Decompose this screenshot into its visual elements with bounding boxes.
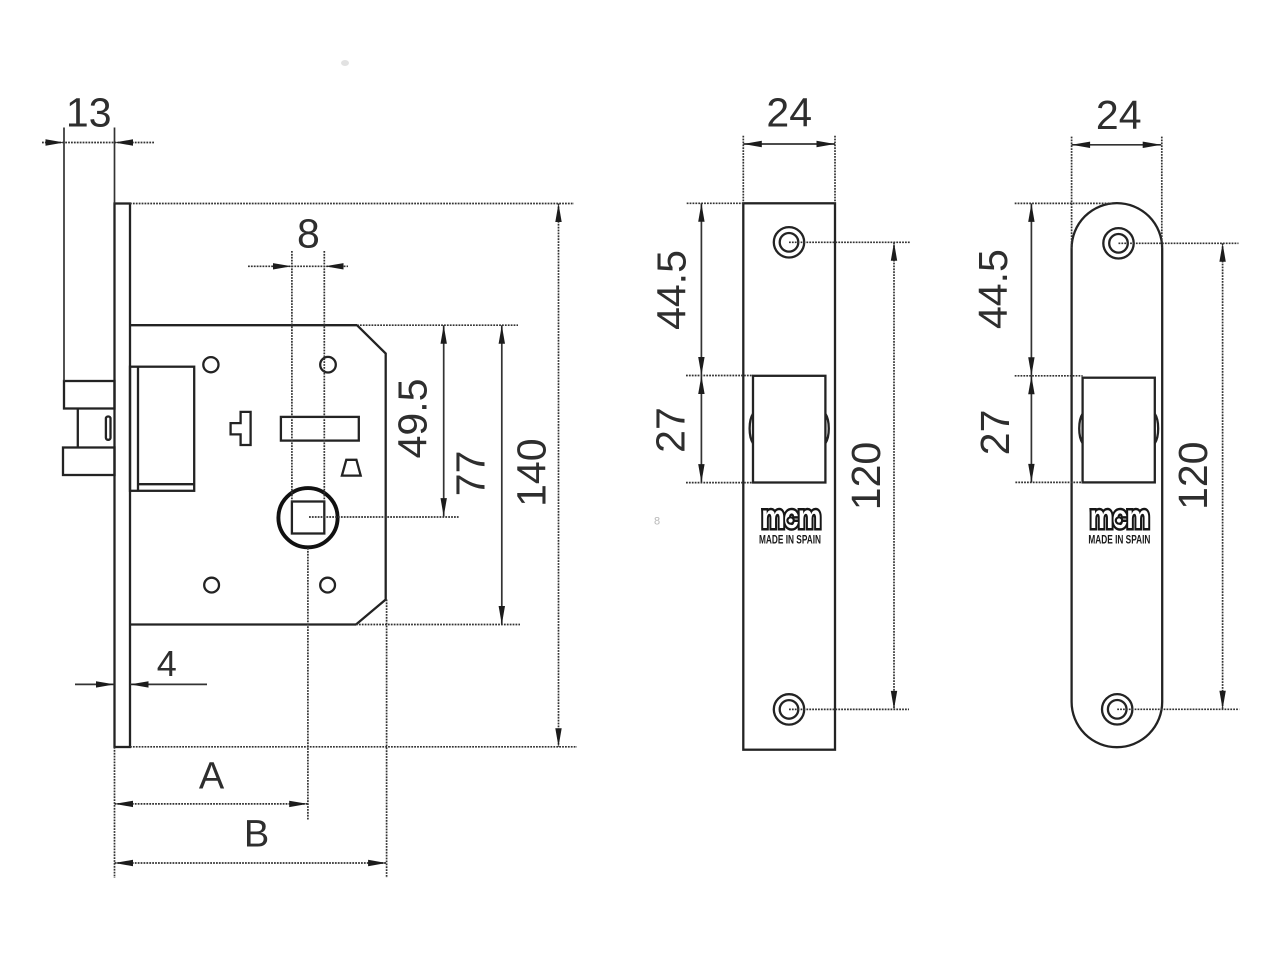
svg-text:8: 8 [297, 210, 320, 256]
svg-text:13: 13 [66, 90, 112, 136]
dimension A line [115, 803, 308, 805]
dimension 120 top arrowhead (right) [1219, 243, 1225, 261]
dimension 24 left arrowhead (middle) [743, 141, 762, 147]
svg-text:8: 8 [654, 516, 660, 528]
dimension 120 line (right) [1222, 243, 1224, 709]
dimension 27 bottom arrowhead (right) [1028, 464, 1034, 483]
svg-text:49.5: 49.5 [390, 379, 436, 459]
dimension 27 bottom arrowhead (middle) [698, 464, 704, 483]
follower centreline going down (A dimension extension) [307, 548, 309, 820]
dimension 8 right extension line [323, 251, 325, 502]
dimension 24 line (middle) [743, 143, 835, 145]
dimension 27 line (right) [1030, 376, 1032, 483]
cutout top extension line (right) [1015, 375, 1083, 377]
dimension 140 top arrowhead [555, 204, 561, 223]
latch bolt small detail rectangle [106, 417, 111, 440]
dimension 24 left extension line (middle) [742, 136, 744, 204]
screw hole bottom-right [320, 578, 335, 593]
plate top extension line for 44.5 (middle) [687, 202, 744, 204]
svg-text:MADE IN SPAIN: MADE IN SPAIN [1088, 535, 1150, 547]
screw hole bottom-left [204, 578, 219, 593]
dimension 44.5 line (right) [1030, 203, 1032, 375]
dimension 24 left arrowhead (right) [1072, 142, 1091, 148]
dimension 24 right extension line (right) [1161, 137, 1163, 249]
svg-text:B: B [244, 813, 269, 855]
dimension 120 top arrowhead (middle) [891, 242, 897, 260]
T-shaped lever piece [231, 412, 251, 445]
svg-text:77: 77 [448, 451, 494, 497]
top hole centreline (right) [1119, 242, 1239, 244]
svg-text:27: 27 [972, 410, 1018, 456]
cutout bottom extension line (middle) [686, 482, 753, 484]
dimension 44.5 bottom arrowhead (right) [1028, 357, 1034, 376]
lock case bottom extension line for 77 [356, 624, 520, 626]
faceplate (side view, vertical strip) [115, 204, 131, 748]
rounded faceplate outline [1072, 203, 1163, 747]
dimension 44.5 top arrowhead (middle) [698, 203, 704, 222]
dimension 4 right tail line [130, 683, 207, 685]
cutout top extension line (middle) [686, 375, 753, 377]
dimension 120 bottom arrowhead (right) [1219, 691, 1225, 710]
dimension 27 top arrowhead (right) [1028, 376, 1034, 395]
latch cutout right bump [825, 414, 828, 443]
lock case right edge with chamfers [356, 325, 386, 624]
bottom hole centreline (right) [1117, 708, 1239, 710]
bottom screw hole inner (rounded plate) [1108, 700, 1127, 719]
bottom screw hole outer (rounded plate) [1102, 694, 1132, 724]
dimension 24 right arrowhead (right) [1143, 142, 1162, 148]
lock case top edge [130, 324, 357, 326]
latch cutout [753, 376, 825, 483]
top screw hole outer [774, 227, 804, 257]
screw hole top-right [320, 357, 336, 373]
dimension 120 line (middle) [893, 242, 895, 709]
top edge extension line for 140 [130, 203, 574, 205]
lock case top extension line for 49.5 and 77 [357, 324, 518, 326]
dimension 120 bottom arrowhead (middle) [891, 691, 897, 710]
dimension 49.5 line [443, 325, 445, 516]
latch bolt neck left edge [77, 409, 79, 448]
screw hole top-left [203, 357, 218, 372]
top screw hole outer (rounded plate) [1103, 228, 1133, 258]
dimension 8 left extension line [291, 251, 293, 502]
dimension 13 left arrowhead [46, 139, 65, 145]
svg-text:120: 120 [1170, 441, 1216, 509]
dimension B right arrowhead [368, 860, 387, 866]
svg-text:24: 24 [1096, 92, 1142, 138]
top screw hole inner (rounded plate) [1109, 234, 1128, 253]
svg-text:24: 24 [766, 90, 812, 136]
latch cutout left bump (rounded plate) [1079, 414, 1082, 443]
dimension 44.5 bottom arrowhead (middle) [698, 357, 704, 376]
dimension 140 line [558, 204, 560, 747]
dimension 8 left arrowhead [273, 263, 292, 269]
dimension 49.5 bottom arrowhead [441, 498, 447, 516]
dimension 44.5 top arrowhead (right) [1028, 203, 1034, 222]
svg-text:27: 27 [648, 407, 694, 453]
dimension 24 left extension line (right) [1071, 137, 1073, 249]
dimension 8 right arrowhead [325, 263, 344, 269]
dimension 13 right extension line [114, 128, 116, 204]
scan artifact smudge [341, 60, 349, 66]
crossbar rectangle (hub bar) [281, 417, 359, 441]
spindle follower circle (bold) [278, 488, 337, 547]
latch cutout left bump [750, 414, 753, 443]
dimension 24 right extension line (middle) [834, 136, 836, 204]
follower centreline going right (49.5 extension) [309, 516, 459, 518]
latch housing box inside case [130, 367, 194, 491]
dimension 49.5 top arrowhead [441, 325, 447, 344]
bottom edge extension line for 140 [130, 746, 577, 748]
dimension 140 bottom arrowhead [555, 728, 561, 747]
latch housing inner vertical line [137, 367, 139, 491]
dimension 44.5 line (middle) [700, 203, 702, 375]
dimension 77 bottom arrowhead [499, 606, 505, 625]
dimension 4 left tail line [75, 683, 115, 685]
top hole centreline (middle) [789, 241, 911, 243]
dimension 27 line (middle) [700, 376, 702, 483]
dimension A left arrowhead [115, 801, 134, 807]
svg-text:140: 140 [509, 438, 555, 506]
bottom hole centreline (middle) [789, 708, 909, 710]
svg-text:44.5: 44.5 [970, 249, 1016, 329]
top screw hole inner [780, 233, 799, 252]
spindle follower square hole [292, 502, 324, 534]
dimension 24 right arrowhead (middle) [817, 141, 836, 147]
svg-text:4: 4 [157, 643, 177, 684]
latch bolt lower flange [63, 448, 115, 476]
lock case bottom edge [130, 623, 356, 625]
flat faceplate outline [743, 203, 835, 749]
extension line below faceplate for A and B [114, 747, 116, 878]
svg-text:MADE IN SPAIN: MADE IN SPAIN [759, 535, 821, 547]
latch cutout (rounded plate) [1083, 378, 1155, 483]
dimension 13 right arrowhead [115, 139, 134, 145]
svg-text:120: 120 [843, 442, 889, 510]
trapezoid stop piece [342, 460, 361, 476]
latch housing inner horizontal line [138, 483, 194, 485]
extension line from case right edge for B [386, 600, 388, 879]
dimension 77 line [501, 325, 503, 624]
svg-text:44.5: 44.5 [649, 250, 695, 330]
svg-text:A: A [199, 755, 225, 797]
dimension 24 line (right) [1072, 144, 1162, 146]
cutout bottom extension line (right) [1015, 481, 1082, 483]
latch cutout right bump (rounded plate) [1155, 414, 1158, 443]
dimension 4 left arrowhead [96, 681, 115, 687]
dimension 8 line [248, 265, 348, 267]
dimension 13 line [42, 142, 154, 144]
dimension 4 right arrowhead [130, 681, 149, 687]
dimension 77 top arrowhead [499, 325, 505, 344]
bottom screw hole outer [774, 694, 804, 724]
mcm logo (rounded plate) [1090, 499, 1149, 535]
dimension A right arrowhead [289, 801, 308, 807]
dimension 13 left extension line [63, 128, 65, 382]
arc top extension line for 44.5 (right) [1015, 202, 1113, 204]
mcm logo [761, 499, 820, 535]
dimension B left arrowhead [115, 860, 134, 866]
latch bolt upper flange [64, 381, 115, 409]
dimension B line [115, 862, 387, 864]
bottom screw hole inner [780, 700, 799, 719]
dimension 27 top arrowhead (middle) [698, 376, 704, 395]
